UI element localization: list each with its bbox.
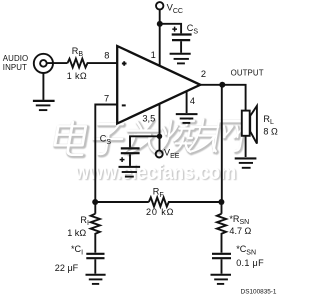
svg-text:*CI: *CI	[71, 244, 83, 256]
svg-text:1 kΩ: 1 kΩ	[67, 228, 86, 238]
svg-text:*CSN: *CSN	[236, 244, 256, 256]
svg-text:2: 2	[201, 69, 206, 79]
svg-text:1 kΩ: 1 kΩ	[67, 71, 87, 81]
svg-text:7: 7	[104, 94, 109, 104]
svg-text:AUDIO: AUDIO	[3, 54, 29, 63]
svg-text:VCC: VCC	[167, 1, 183, 14]
svg-text:RB: RB	[72, 46, 84, 58]
svg-text:1: 1	[151, 50, 156, 60]
svg-text:*RSN: *RSN	[229, 214, 249, 226]
svg-text:0.1 μF: 0.1 μF	[236, 258, 264, 268]
svg-text:4: 4	[190, 96, 195, 106]
svg-text:22 μF: 22 μF	[55, 263, 79, 273]
svg-text:4.7 Ω: 4.7 Ω	[229, 226, 251, 236]
svg-text:RL: RL	[263, 114, 274, 126]
svg-text:RI: RI	[80, 215, 89, 227]
svg-text:www.elecfans.com: www.elecfans.com	[74, 162, 236, 184]
svg-text:DS100835-1: DS100835-1	[241, 289, 277, 296]
svg-text:3,5: 3,5	[142, 114, 155, 124]
svg-text:20 kΩ: 20 kΩ	[146, 207, 174, 217]
svg-text:INPUT: INPUT	[3, 63, 27, 72]
svg-text:8 Ω: 8 Ω	[263, 127, 278, 137]
svg-text:OUTPUT: OUTPUT	[231, 69, 264, 78]
svg-text:RF: RF	[153, 186, 164, 198]
svg-text:8: 8	[104, 51, 109, 61]
